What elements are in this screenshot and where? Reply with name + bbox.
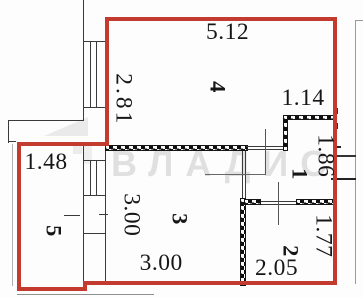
neighbor wall top horizontal (355, 20, 363, 21)
red boundary bottom main (83, 281, 337, 285)
opening line upper (3/4 to hall 1) (246, 146, 283, 147)
window 5/3 glazing line 2 (96, 160, 97, 195)
tick across wall 5/3 at y214 (99, 214, 108, 215)
red boundary left (17, 142, 21, 291)
room label 5 rotated (42, 212, 66, 249)
balcony outline horizontal (8, 120, 83, 121)
red boundary step connector (83, 281, 87, 291)
tick in room 5 (64, 215, 80, 216)
door jamb red to neighbor y179 (331, 178, 356, 181)
red boundary mid horizontal (17, 142, 109, 146)
window 5/3 top rung (83, 160, 106, 161)
inner wall line left of red border (12, 144, 13, 286)
balcony outer wall top vertical (83, 0, 84, 121)
door opening line lower (1 to 2) (261, 204, 296, 205)
room label 3 rotated (167, 200, 191, 237)
hatched wall between rooms 4 and 3 (105, 145, 248, 151)
window 5/3 bottom rung (83, 195, 106, 196)
balcony outline left vertical (8, 120, 9, 143)
dim text 2.81 rotated (111, 73, 135, 110)
watermark text ВЛАДИС (111, 146, 338, 182)
wall 5/3 left face (83, 142, 84, 288)
red boundary top (105, 17, 338, 21)
dim text 3.00 rotated (119, 193, 143, 230)
tick across wall 5/3 (84, 233, 106, 234)
hatched wall 1/2 right part (296, 199, 337, 205)
hatched wall under 1.14 (283, 115, 337, 120)
window 5/3 glazing line 1 (90, 160, 91, 195)
wall 3/1 thin line a (242, 151, 243, 198)
dim text 5.12 (206, 21, 249, 45)
dimension line vertical at door 3/1 (265, 129, 266, 174)
opening line lower (3/4 to hall 1) (246, 149, 283, 150)
hatched wall vertical niche (283, 115, 289, 151)
dimension line horizontal in room 3 (205, 174, 266, 175)
balcony window glazing line 2 (96, 41, 97, 107)
wall stub mark above 1.14 wall (333, 108, 338, 114)
hatched wall 1/2 left part (244, 199, 261, 205)
room label 2 rotated (278, 232, 302, 269)
tick left of red corner (8, 141, 16, 142)
red boundary mid vertical (105, 17, 109, 146)
tick red to neighbor y156 (334, 155, 356, 157)
balcony window top rung (83, 41, 106, 42)
dimension line vertical in room 2 (278, 182, 279, 225)
wall 3/1 thin line b (245, 151, 246, 198)
dim text 3.00 bottom (140, 252, 183, 276)
red boundary bottom left part (17, 287, 87, 291)
wall stub mark below 1.14 wall (333, 123, 338, 129)
outer wall line below red bottom (17, 294, 154, 295)
balcony window glazing line 1 (90, 41, 91, 107)
wall 5/3 right face (105, 142, 106, 283)
neighbor wall right vertical (355, 20, 356, 284)
dim text 2.05 (255, 257, 298, 281)
dim text 1.77 rotated (310, 214, 334, 251)
dim text 1.14 (282, 87, 325, 111)
red boundary right (333, 17, 337, 285)
tick crossing red y146 (333, 146, 341, 148)
dim text 1.86 rotated (312, 134, 336, 171)
hatched wall vertical between 3 and 2 (240, 198, 247, 286)
balcony window bottom rung (83, 107, 106, 108)
room label 1 rotated (287, 155, 311, 192)
dim text 1.48 (25, 151, 68, 175)
door opening line upper (1 to 2) (261, 201, 296, 202)
room label 4 rotated (206, 68, 230, 105)
